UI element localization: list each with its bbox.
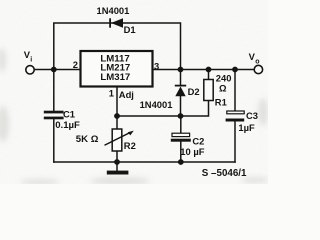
diode D2: [175, 85, 186, 97]
label Vo: [249, 51, 260, 65]
node C2 bottom junction: [178, 159, 184, 165]
svg-text:1N4001: 1N4001: [140, 99, 173, 110]
svg-text:D2: D2: [188, 86, 200, 97]
svg-text:C2: C2: [192, 135, 204, 146]
label Vi: [24, 49, 33, 63]
wire Vi to pin 2: [34, 69, 80, 71]
svg-text:1N4001: 1N4001: [97, 5, 130, 16]
svg-text:S –5046/1: S –5046/1: [202, 168, 247, 179]
wire R1 top lead: [208, 70, 210, 80]
svg-text:1µF: 1µF: [238, 122, 255, 133]
node output junction at D1/D2: [178, 67, 184, 73]
svg-text:LM317: LM317: [100, 72, 130, 83]
wire R2 top lead: [116, 116, 118, 129]
wire C1 to bottom rail: [53, 119, 55, 162]
op-amp U1 regulator box LM117/LM217/LM317: [81, 51, 153, 87]
node Adj junction: [114, 113, 120, 119]
wire C3 top lead: [234, 70, 236, 112]
resistor R1: [204, 80, 213, 101]
svg-text:10 µF: 10 µF: [180, 146, 204, 157]
wire C2 top lead: [180, 116, 182, 133]
svg-text:2: 2: [73, 59, 78, 70]
wire top bypass from input node to output node: [54, 23, 181, 70]
wire D2 bottom lead: [180, 96, 182, 116]
svg-text:5K Ω: 5K Ω: [76, 134, 99, 145]
wire R2 bottom lead: [116, 151, 118, 162]
node input junction: [51, 67, 57, 73]
wire C3 bottom lead: [234, 122, 236, 163]
svg-text:3: 3: [154, 60, 159, 71]
svg-text:0.1µF: 0.1µF: [55, 120, 80, 131]
wire pin 3 to Vo: [153, 69, 255, 71]
svg-text:R2: R2: [124, 140, 136, 151]
label 240 Ohm: [216, 72, 232, 93]
svg-text:C1: C1: [63, 109, 75, 120]
svg-text:C3: C3: [246, 110, 258, 121]
terminal Vo: [254, 65, 262, 73]
svg-text:Ω: Ω: [219, 83, 227, 94]
svg-text:1: 1: [109, 88, 114, 99]
svg-text:o: o: [255, 58, 259, 65]
node D2 anode junction: [178, 113, 184, 119]
diode D1: [109, 18, 123, 27]
node C3 top junction: [232, 67, 238, 73]
ground: [107, 171, 129, 175]
svg-text:R1: R1: [215, 96, 227, 107]
terminal Vi: [26, 66, 34, 74]
svg-text:i: i: [30, 57, 32, 64]
svg-text:D1: D1: [124, 24, 136, 35]
wire C2 bottom lead: [180, 142, 182, 162]
node R1 top junction: [206, 67, 212, 73]
wire left vertical input node to C1: [53, 70, 55, 111]
wire Adj rail to R1 bottom: [117, 101, 209, 117]
svg-text:240: 240: [216, 72, 232, 83]
wire ground stub: [116, 162, 118, 171]
capacitor C3: [226, 111, 245, 122]
wire D2 top lead: [180, 70, 182, 85]
capacitor C2: [171, 133, 191, 142]
potentiometer R2: [105, 129, 134, 151]
svg-text:Adj: Adj: [119, 89, 134, 100]
wire pin 1 Adj down: [116, 87, 118, 117]
capacitor C1: [44, 111, 64, 120]
wire bottom ground rail: [54, 161, 235, 163]
node R2 bottom junction: [114, 159, 120, 165]
